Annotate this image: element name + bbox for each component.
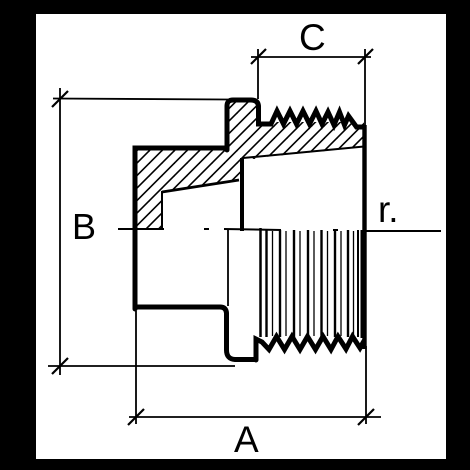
- A left extension: [135, 311, 137, 424]
- svg-text:r.: r.: [378, 189, 399, 230]
- B top extension line: [53, 99, 228, 100]
- internal thread root taper line (upper right): [243, 147, 364, 159]
- C left extension: [257, 49, 259, 99]
- hatch area: threaded wall section (upper right): [244, 122, 364, 159]
- small bore left edge: [161, 191, 163, 228]
- B top tick: [52, 91, 68, 107]
- svg-text:B: B: [72, 206, 96, 247]
- A right tick: [358, 409, 374, 425]
- svg-text:A: A: [234, 419, 259, 460]
- C right extension: [364, 49, 366, 126]
- dimension B: dim line: [48, 88, 235, 375]
- hatch area: hex body and collar section (upper half): [136, 100, 259, 228]
- centerline (dash-dot): [118, 229, 441, 231]
- outline: hex bottom, collar bottom, external thread crest (lower): [135, 307, 364, 360]
- A right extension: [365, 346, 367, 424]
- internal thread crest lines (view into bore, lower half): [267, 230, 362, 338]
- tapered bore: small bore top slant line: [162, 180, 239, 192]
- hex/collar step edge (lower half exterior view): [227, 229, 229, 306]
- B bottom extension line: [48, 365, 235, 367]
- dimension C: [251, 49, 373, 126]
- main outline: hex left+top, collar, external thread crest (upper): [135, 100, 364, 309]
- dimension A: [128, 311, 381, 425]
- right end face: [362, 125, 366, 349]
- C left tick: [251, 49, 266, 64]
- svg-text:C: C: [299, 17, 326, 58]
- C right tick: [358, 49, 373, 64]
- bore step vertical: [240, 158, 244, 231]
- bore mouth edge (lower half): [259, 228, 262, 337]
- A left tick: [128, 409, 144, 425]
- B bottom tick: [52, 358, 68, 374]
